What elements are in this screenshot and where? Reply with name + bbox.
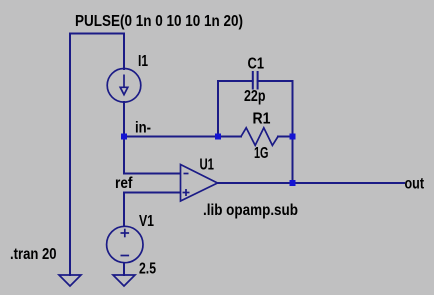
svg-text:out: out: [405, 175, 425, 192]
wire cap branch top right: [258, 80, 293, 82]
wire cap branch top left: [218, 80, 253, 82]
node junction at cap branch right: [290, 134, 296, 140]
svg-text:C1: C1: [248, 56, 265, 73]
resistor R1: [241, 128, 278, 146]
node junction at cap branch left: [215, 134, 221, 140]
wire ref to op-amp non-inverting input: [124, 193, 180, 227]
svg-text:ref: ref: [115, 175, 133, 192]
voltage source V1: [107, 226, 143, 262]
wire cap branch right vertical: [292, 81, 294, 183]
wire V1 bottom lead: [123, 263, 125, 275]
svg-text:2.5: 2.5: [139, 261, 156, 278]
op-amp U1: [181, 165, 218, 202]
svg-text:.lib opamp.sub: .lib opamp.sub: [203, 202, 298, 219]
ground (left): [59, 275, 81, 286]
wire I1 bottom lead: [123, 102, 125, 137]
wire top horizontal: [70, 33, 124, 35]
wire left vertical: [69, 34, 71, 276]
svg-text:PULSE(0 1n 0 10 10 1n 20): PULSE(0 1n 0 10 10 1n 20): [75, 13, 243, 30]
current source I1: [107, 69, 141, 103]
svg-text:I1: I1: [138, 53, 148, 70]
svg-text:1G: 1G: [254, 145, 269, 162]
ground (below V1): [113, 275, 135, 286]
wire R1 right lead: [278, 136, 293, 138]
svg-text:V1: V1: [139, 213, 154, 230]
svg-text:.tran 20: .tran 20: [10, 246, 57, 263]
wire cap branch left vertical: [217, 81, 219, 137]
svg-text:in-: in-: [135, 120, 151, 137]
wire in- horizontal left: [124, 136, 241, 138]
svg-text:22p: 22p: [244, 88, 266, 105]
node junction at in- / I1: [121, 134, 127, 140]
node junction at output: [290, 180, 296, 186]
wire to op-amp inverting input: [124, 137, 180, 174]
wire output: [217, 182, 404, 184]
wire I1 top lead: [123, 34, 125, 70]
capacitor C1: [253, 71, 258, 90]
svg-text:U1: U1: [200, 157, 215, 174]
svg-text:R1: R1: [253, 111, 271, 128]
